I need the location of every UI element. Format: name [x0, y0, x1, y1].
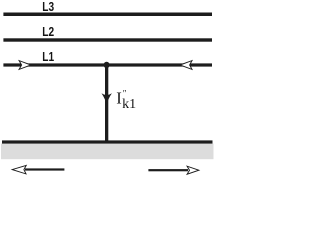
svg-text:L3: L3: [42, 0, 54, 14]
earth (ground) conductor: [2, 140, 213, 143]
conductor L2: [3, 38, 212, 41]
wire: fault branch from L1 to earth: [105, 65, 108, 141]
earth return arrow left (open head, pointing left): [12, 165, 64, 174]
conductor L3: [3, 13, 212, 17]
node (junction dot) on L1: [104, 62, 110, 68]
svg-text:I: I: [116, 89, 122, 108]
arrowhead of fault current (filled, pointing down): [102, 93, 112, 105]
svg-text:L1: L1: [42, 50, 54, 64]
conductor L1: [3, 63, 212, 66]
current arrow on L1 left (open head, pointing right): [19, 61, 31, 70]
current arrow on L1 right (open head, pointing left): [180, 61, 192, 70]
svg-text:L2: L2: [42, 25, 54, 39]
label I''k1: [116, 88, 136, 112]
svg-text:k1: k1: [122, 97, 136, 112]
earth return arrow right (open head, pointing right): [148, 166, 198, 174]
earth hatch band: [1, 144, 214, 160]
